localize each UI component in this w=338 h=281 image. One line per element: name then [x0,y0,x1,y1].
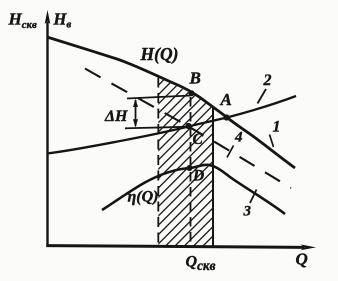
point D [187,165,193,171]
svg-text:C: C [193,131,204,148]
vertical dashed line at Q_skv [190,97,192,246]
leader for label 2 [258,89,267,104]
B level reference line [127,96,191,99]
C level reference line [125,127,187,129]
point B [189,90,195,96]
svg-text:2: 2 [263,72,272,89]
band right edge (solid vertical) [212,107,214,247]
delta-H double arrow [135,100,137,126]
svg-text:ΔН: ΔН [104,108,128,125]
svg-text:D: D [192,168,204,185]
hatched working-range band [158,77,213,246]
x axis arrowhead [301,244,317,250]
efficiency curve eta(Q) / 3 [102,165,285,214]
svg-text:4: 4 [234,130,243,146]
svg-text:Нв: Нв [53,10,72,31]
dashed curve 4 (left part) [85,69,189,127]
band left edge (dashed vertical) [157,78,159,246]
svg-text:Нскв: Нскв [8,10,37,31]
curve H(Q) / 1 (pump head curve) [47,37,295,168]
svg-text:Q: Q [296,250,308,269]
svg-text:3: 3 [243,204,252,220]
point A [223,114,229,120]
point C [185,123,191,129]
svg-text:Н(Q): Н(Q) [140,44,179,64]
dashed curve 4 (right part) [189,127,292,189]
leader for label 4 [227,146,234,158]
leader for label 1 [270,135,274,148]
line 2 (well characteristic) [47,96,296,154]
svg-text:1: 1 [273,119,281,136]
svg-text:η(Q): η(Q) [128,189,159,206]
leader for label 3 [250,190,257,204]
y axis [46,22,48,247]
svg-text:A: A [220,90,232,109]
x axis [46,246,304,248]
y axis arrowhead [45,10,51,24]
svg-text:B: B [189,69,201,88]
svg-text:Qскв: Qскв [186,254,216,274]
